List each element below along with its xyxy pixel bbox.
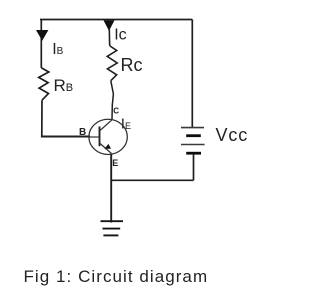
svg-text:E: E: [112, 158, 118, 168]
svg-text:IE: IE: [121, 116, 131, 133]
svg-text:B: B: [79, 127, 86, 138]
svg-text:IB: IB: [52, 41, 63, 58]
current arrow IC: [104, 20, 115, 31]
current arrow IB: [36, 30, 48, 41]
wire bottom rail: [111, 179, 193, 181]
ground bar 3: [103, 234, 118, 236]
svg-text:Vcc: Vcc: [216, 125, 249, 145]
svg-text:Fig 1: Circuit diagram: Fig 1: Circuit diagram: [24, 267, 209, 286]
wire from top to RC: [108, 29, 111, 46]
transistor Q1 emitter stroke: [100, 143, 112, 153]
battery Vcc plate long top: [181, 127, 204, 129]
transistor Q1 emitter arrow: [105, 144, 111, 149]
battery Vcc plate long lower: [181, 144, 205, 146]
svg-text:RB: RB: [54, 76, 74, 95]
ground bar 2: [103, 228, 121, 230]
transistor Q1 circle: [89, 119, 127, 154]
battery Vcc plate short bottom: [186, 152, 201, 155]
ground bar 1: [101, 220, 124, 222]
wire base lead: [41, 136, 90, 138]
battery Vcc plate short upper: [186, 134, 201, 137]
svg-text:Ic: Ic: [114, 27, 126, 44]
svg-text:Rc: Rc: [121, 55, 143, 75]
wire right rail to Vcc: [191, 20, 193, 128]
svg-text:C: C: [113, 106, 119, 115]
transistor Q1 base bar: [99, 127, 101, 147]
transistor Q1 base lead inside: [90, 136, 100, 138]
wire collector lead: [111, 81, 114, 120]
wire left branch lower: [41, 100, 43, 136]
wire battery bottom lead: [193, 154, 195, 180]
wire top rail: [40, 19, 192, 21]
resistor RC: [107, 46, 117, 81]
transistor Q1 collector stroke: [100, 120, 112, 131]
wire left branch upper: [40, 20, 42, 68]
resistor RB: [39, 68, 49, 100]
wire emitter down: [110, 155, 112, 223]
